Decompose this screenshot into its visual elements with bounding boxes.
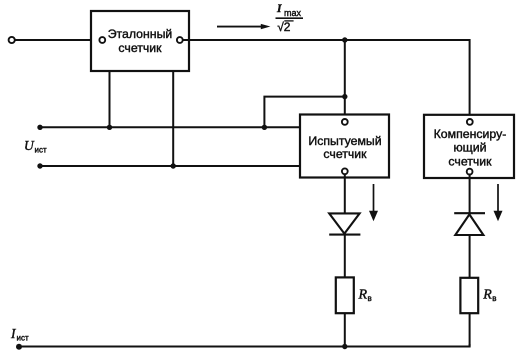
terminal circle tested meter top bbox=[342, 119, 348, 125]
junction dot top voltage line stub bbox=[107, 125, 112, 130]
current direction arrow top bbox=[217, 24, 270, 29]
svg-text:U: U bbox=[24, 138, 35, 153]
bottom current line bbox=[19, 344, 470, 347]
junction dot main line bbox=[342, 37, 347, 42]
wire main line to tested meter bbox=[344, 40, 346, 120]
terminal circle compensating meter top bbox=[467, 119, 473, 125]
left input terminal bbox=[9, 37, 15, 43]
svg-text:Испытуемый: Испытуемый bbox=[308, 134, 381, 148]
terminal circle reference meter left bbox=[99, 37, 105, 43]
junction dot bottom current line left end bbox=[16, 344, 22, 350]
tested meter box bbox=[300, 115, 389, 178]
resistor Rv left bbox=[336, 277, 354, 313]
svg-text:в: в bbox=[492, 294, 496, 303]
junction dot bottom voltage line left end bbox=[37, 163, 42, 168]
resistor Rv right bbox=[460, 278, 478, 313]
wire reference meter bottom-left stub bbox=[109, 71, 111, 127]
svg-text:I: I bbox=[276, 3, 282, 15]
wire compensating meter to diode bbox=[469, 175, 471, 214]
diode VD2 bbox=[454, 213, 485, 235]
svg-text:ист: ист bbox=[35, 146, 47, 155]
wire resistor to bottom line left bbox=[344, 313, 346, 347]
svg-text:ист: ист bbox=[17, 334, 29, 343]
label Imax/sqrt2 bbox=[276, 3, 304, 34]
svg-text:счетчик: счетчик bbox=[118, 41, 162, 55]
junction dot voltage tap bbox=[342, 94, 347, 99]
terminal circle tested meter bottom bbox=[342, 168, 348, 174]
svg-text:в: в bbox=[368, 294, 372, 303]
wire bottom voltage line bbox=[40, 165, 300, 167]
current arrow beside VD1 bbox=[369, 184, 378, 221]
svg-text:R: R bbox=[482, 288, 492, 303]
compensating meter box bbox=[424, 115, 514, 178]
junction dot top voltage line tap bbox=[262, 125, 267, 130]
diode VD1 bbox=[329, 213, 360, 234]
wire tested meter to diode bbox=[344, 175, 346, 214]
wire top voltage line bbox=[40, 126, 300, 128]
terminal circle compensating meter bottom bbox=[467, 169, 473, 175]
svg-text:счетчик: счетчик bbox=[448, 154, 492, 168]
svg-text:√2: √2 bbox=[277, 20, 291, 34]
svg-text:max: max bbox=[284, 8, 302, 18]
wire input to reference meter bbox=[15, 39, 100, 41]
svg-text:R: R bbox=[358, 288, 368, 303]
svg-text:Компенсиру-: Компенсиру- bbox=[434, 127, 507, 141]
svg-text:ющий: ющий bbox=[453, 140, 486, 154]
wire voltage tap link bbox=[264, 97, 344, 128]
wire diode to resistor right bbox=[469, 235, 471, 278]
main current wire top bbox=[189, 40, 470, 119]
wire diode to resistor left bbox=[344, 235, 346, 279]
reference meter box bbox=[91, 11, 189, 71]
svg-text:Эталонный: Эталонный bbox=[108, 27, 173, 41]
wire stub right of reference meter bbox=[183, 39, 192, 41]
terminal circle reference meter right bbox=[177, 37, 183, 43]
wire reference meter bottom-right stub bbox=[172, 71, 174, 166]
junction dot bottom voltage line stub bbox=[171, 163, 176, 168]
current arrow beside VD2 bbox=[494, 184, 503, 221]
junction dot bottom current line bbox=[342, 344, 347, 349]
svg-text:счетчик: счетчик bbox=[323, 147, 367, 161]
junction dot top voltage line left end bbox=[37, 125, 42, 130]
wire resistor to bottom corner right bbox=[469, 313, 471, 347]
